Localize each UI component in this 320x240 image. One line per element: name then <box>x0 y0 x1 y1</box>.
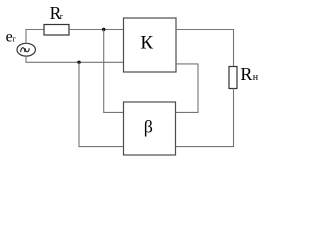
AC source sine symbol <box>21 48 30 52</box>
svg-text:β: β <box>144 116 153 136</box>
amplifier block K <box>124 18 177 72</box>
load resistor R_n <box>229 67 237 89</box>
wire K lower output to beta upper-right input <box>176 64 199 113</box>
svg-text:К: К <box>140 32 153 53</box>
junction node on bottom wire <box>77 61 80 64</box>
svg-text:г: г <box>13 34 17 44</box>
svg-text:R: R <box>240 64 252 84</box>
wire node down to beta lower-left input <box>79 62 124 146</box>
svg-text:г: г <box>60 11 64 21</box>
resistor R_g <box>44 25 69 36</box>
feedback block beta <box>124 102 176 155</box>
wire source bottom to K lower input <box>26 56 124 62</box>
wire node down to beta upper-left input <box>104 30 124 113</box>
svg-text:н: н <box>253 72 259 83</box>
wire R_n bottom to beta lower-right <box>176 89 234 147</box>
wire resistor to K input <box>69 29 124 31</box>
wire K top output to R_n top <box>176 30 234 67</box>
junction node on top wire <box>102 28 105 31</box>
wire source top to resistor <box>26 30 44 44</box>
AC source e_g <box>17 43 35 56</box>
